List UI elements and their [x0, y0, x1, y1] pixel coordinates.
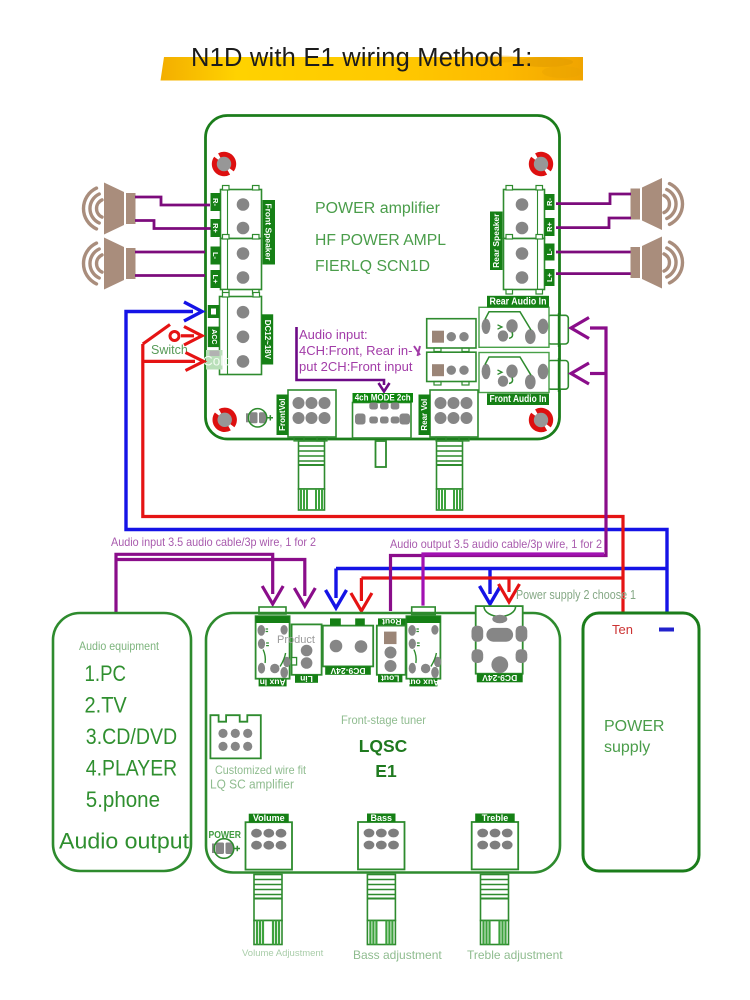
wire purple front jack branch: [590, 372, 606, 375]
svg-text:R+: R+: [211, 223, 220, 233]
shaft FrontVol: [299, 441, 325, 489]
legs FrontVol: [294, 437, 304, 441]
svg-text:R-: R-: [211, 198, 220, 206]
svg-text:4CH:Front, Rear in-: 4CH:Front, Rear in-: [299, 343, 412, 358]
label R+ right: [545, 218, 555, 236]
svg-text:Front-stage tuner: Front-stage tuner: [341, 713, 426, 727]
potentiometer Volume: [246, 822, 293, 869]
switch 4ch MODE 2ch: [353, 403, 412, 439]
potentiometer FrontVol: [288, 390, 336, 437]
connector power circle: [212, 844, 216, 854]
shaft Bass: [367, 875, 395, 921]
svg-text:4ch MODE 2ch: 4ch MODE 2ch: [355, 393, 411, 404]
svg-text:ACC: ACC: [210, 329, 217, 344]
svg-text:LQ SC amplifier: LQ SC amplifier: [210, 778, 294, 792]
shaft Rear Vol: [437, 441, 463, 489]
svg-text:Treble adjustment: Treble adjustment: [467, 948, 563, 962]
board E1 front-stage tuner: [206, 613, 560, 873]
wire purple audio input bus 2: [118, 560, 305, 597]
svg-text:LQSC: LQSC: [359, 736, 408, 756]
svg-text:Audio output: Audio output: [59, 829, 189, 854]
relay box K1: [427, 319, 476, 348]
svg-text:Treble: Treble: [482, 813, 509, 823]
svg-text:N1D with E1 wiring Method 1:: N1D with E1 wiring Method 1:: [191, 44, 533, 72]
title bar: [161, 57, 584, 81]
svg-text:Power supply 2 choose 1: Power supply 2 choose 1: [516, 588, 636, 602]
box audio equipment: [53, 613, 191, 871]
svg-text:4.PLAYER: 4.PLAYER: [86, 756, 177, 781]
connector Aux In: [256, 616, 290, 679]
svg-text:Aux out: Aux out: [407, 678, 439, 688]
arrowhead purple left front: [571, 363, 589, 384]
svg-text:Volume: Volume: [253, 813, 285, 823]
svg-text:Bass adjustment: Bass adjustment: [353, 948, 442, 962]
connector customized wire: [210, 715, 260, 758]
wire blue DC jack branch: [488, 569, 491, 595]
svg-text:Rear Vol: Rear Vol: [420, 399, 429, 431]
wire purple aux out branch: [423, 554, 604, 606]
terminal block J1 Front Speaker: [221, 190, 262, 239]
wire SPK2 L-: [135, 251, 205, 254]
svg-text:HF POWER AMPL: HF POWER AMPL: [315, 232, 446, 249]
label DC12~18V: [262, 314, 274, 364]
label minus: [208, 305, 220, 318]
wire SPK2 L+: [135, 274, 205, 277]
wire purple audio output from jacks: [391, 328, 607, 611]
annotation squiggle: [414, 346, 420, 356]
svg-text:put 2CH:Front input: put 2CH:Front input: [299, 359, 413, 374]
svg-text:L+: L+: [211, 275, 220, 285]
arrowhead blue down DC: [480, 586, 501, 604]
annotation pointer wire: [297, 327, 385, 385]
svg-text:DC9-24V: DC9-24V: [330, 666, 365, 676]
label Front Audio In: [487, 394, 549, 406]
wire SPK4 L-: [556, 251, 631, 254]
svg-text:FrontVol: FrontVol: [278, 399, 287, 431]
arrowhead red down DC: [499, 584, 520, 602]
label ACC: [208, 327, 220, 348]
audio jack socket: [548, 315, 569, 344]
wire blue E1 branch: [336, 569, 667, 599]
svg-text:Customized wire fit: Customized wire fit: [215, 763, 307, 777]
audio jack socket: [548, 361, 569, 390]
aux in top bracket: [259, 607, 286, 614]
label L+ right: [545, 269, 555, 286]
svg-text:Audio input 3.5 audio cable/3p: Audio input 3.5 audio cable/3p wire, 1 f…: [111, 535, 316, 549]
label Cold: [206, 350, 223, 370]
box power supply: [583, 613, 699, 871]
svg-text:Ten: Ten: [612, 622, 633, 637]
svg-text:Audio equipment: Audio equipment: [79, 639, 160, 653]
blue dash: [659, 628, 674, 632]
speaker SPK4 (rear right 2): [631, 237, 683, 289]
svg-text:Product: Product: [277, 634, 315, 646]
svg-text:Audio output 3.5 audio cable/3: Audio output 3.5 audio cable/3p wire, 1 …: [390, 537, 602, 551]
wire SPK1 R-: [135, 197, 210, 205]
aux out top bracket: [412, 607, 436, 615]
connector P1 small circle: [246, 413, 250, 422]
svg-text:Aux In: Aux In: [260, 678, 286, 688]
svg-text:E1: E1: [375, 761, 397, 781]
wire red DC jack branch: [507, 578, 510, 592]
svg-text:L+: L+: [545, 272, 554, 282]
wire red Cold arrow: [143, 360, 195, 363]
svg-text:2.TV: 2.TV: [85, 693, 128, 718]
wire red E1 branch: [361, 578, 623, 601]
svg-text:L-: L-: [211, 252, 220, 260]
N1D amplifier board U1: [206, 116, 560, 440]
switch symbol red: [143, 325, 170, 345]
svg-text:Volume Adjustment: Volume Adjustment: [242, 948, 324, 959]
speaker SPK2 (front left 2): [83, 238, 135, 290]
svg-text:Rear Audio In: Rear Audio In: [490, 296, 547, 307]
svg-text:POWER: POWER: [604, 718, 664, 735]
connector Lin: [292, 624, 322, 674]
svg-text:Rear Speaker: Rear Speaker: [491, 213, 501, 268]
svg-text:Front Audio In: Front Audio In: [490, 394, 547, 405]
potentiometer Treble: [472, 822, 519, 869]
wire SPK4 L+: [556, 272, 631, 275]
legs Rear Vol: [436, 437, 446, 441]
label Front Speaker: [263, 200, 276, 265]
svg-text:Lout: Lout: [381, 674, 400, 684]
label R- right: [545, 194, 555, 210]
wire blue ACC feed: [126, 312, 667, 613]
wire SPK3 R+: [556, 218, 631, 228]
wire SPK3 R-: [556, 194, 631, 204]
svg-text:DC12~18V: DC12~18V: [263, 320, 272, 360]
label R-: [211, 193, 221, 211]
screw hole at 541,420: [528, 407, 554, 433]
svg-text:Bass: Bass: [370, 813, 392, 823]
relay box K2: [427, 352, 476, 381]
wire red main: [143, 344, 623, 614]
label L-: [211, 247, 221, 265]
label Rear Speaker: [490, 212, 503, 271]
label L+: [211, 270, 221, 288]
svg-text:1.PC: 1.PC: [85, 661, 127, 686]
shaft Volume: [254, 875, 282, 921]
potentiometer Bass: [358, 822, 405, 869]
svg-text:Cold: Cold: [203, 354, 231, 369]
svg-text:Switch: Switch: [151, 343, 188, 357]
connector Rout/Lout: [378, 618, 406, 625]
screw hole at 541,164: [528, 151, 554, 177]
svg-text:Front Speaker: Front Speaker: [264, 203, 274, 261]
svg-text:R+: R+: [545, 221, 554, 231]
board edge over sockets: [558, 313, 561, 347]
svg-text:L-: L-: [545, 248, 554, 256]
wire red ACC arrow: [181, 334, 194, 337]
screw hole at 224,164: [211, 151, 237, 177]
screw hole at 224.7,419.8: [212, 407, 238, 433]
svg-text:DC9-24V: DC9-24V: [482, 673, 517, 683]
speaker SPK1 (front left): [83, 183, 135, 235]
label R+: [211, 219, 221, 237]
label L- right: [545, 244, 555, 261]
svg-text:POWER amplifier: POWER amplifier: [315, 200, 440, 217]
svg-text:3.CD/DVD: 3.CD/DVD: [86, 724, 177, 749]
potentiometer Rear Vol: [430, 390, 478, 437]
svg-text:R-: R-: [545, 198, 554, 206]
connector Aux out: [406, 616, 440, 679]
shaft Treble: [481, 875, 509, 921]
connector DC9-24V right power jack: [476, 606, 523, 674]
svg-text:Lin: Lin: [300, 674, 313, 684]
terminal block J3 DC12-18V: [220, 297, 262, 375]
svg-text:supply: supply: [604, 739, 650, 756]
arrowhead red down E1: [351, 593, 372, 611]
terminal block J2 Rear Speaker: [504, 190, 545, 239]
arrowhead blue down E1: [326, 590, 347, 608]
speaker SPK3 (rear right): [631, 178, 683, 230]
arrowhead purple left rear: [571, 318, 589, 339]
connector DC9-24V left: [323, 626, 373, 667]
arrowhead blue right: [184, 302, 202, 321]
wire purple audio input bus: [116, 554, 273, 613]
svg-text:FIERLQ SCN1D: FIERLQ SCN1D: [315, 258, 430, 275]
label Rear Audio In: [487, 296, 549, 308]
svg-text:5.phone: 5.phone: [86, 787, 160, 812]
mode switch lever: [376, 441, 387, 467]
svg-text:Audio input:: Audio input:: [299, 327, 368, 342]
wire SPK1 R+: [135, 221, 211, 229]
